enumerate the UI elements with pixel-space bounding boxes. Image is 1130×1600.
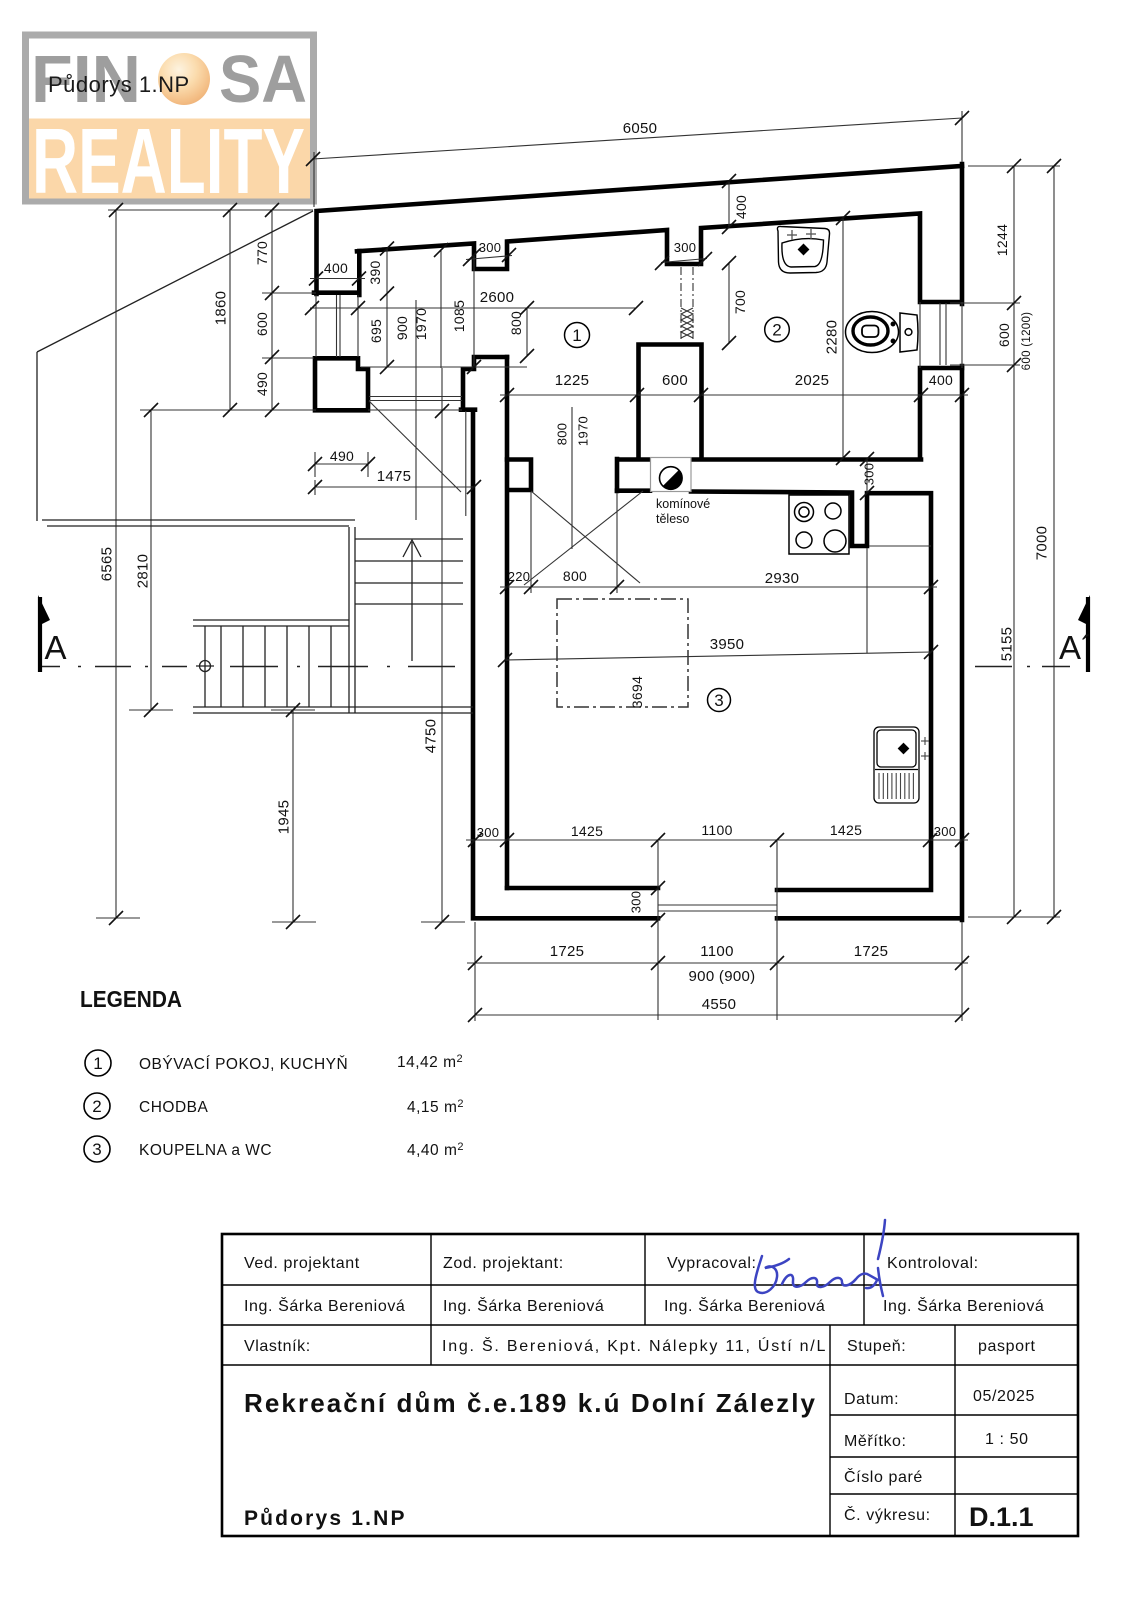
- svg-text:2: 2: [92, 1097, 101, 1116]
- interior room1 dims: [386, 248, 388, 367]
- svg-text:6565: 6565: [98, 547, 115, 582]
- svg-text:600: 600: [662, 372, 688, 389]
- right outer wall lower: [960, 366, 965, 920]
- right outer wall upper: [960, 164, 965, 304]
- pier between room1 and room2: [639, 345, 702, 460]
- svg-text:4550: 4550: [702, 996, 737, 1013]
- svg-text:2930: 2930: [765, 570, 800, 587]
- svg-text:pasport: pasport: [978, 1338, 1036, 1355]
- left columns: [108, 209, 313, 211]
- svg-text:6050: 6050: [623, 120, 658, 137]
- svg-text:Č. výkresu:: Č. výkresu:: [844, 1505, 931, 1524]
- section marks: [38, 595, 1092, 672]
- svg-text:Rekreační dům č.e.189 k.ú: Rekreační dům č.e.189 k.ú Dolní Zálezly: [244, 1388, 816, 1418]
- svg-text:05/2025: 05/2025: [973, 1388, 1035, 1405]
- svg-text:1225: 1225: [555, 372, 590, 389]
- svg-text:2600: 2600: [480, 289, 515, 306]
- toilet: [846, 312, 919, 353]
- svg-text:LEGENDA: LEGENDA: [80, 986, 182, 1012]
- svg-text:7000: 7000: [1033, 526, 1050, 561]
- svg-text:1: 1: [93, 1054, 102, 1073]
- svg-text:Ing. Šárka Bereniová: Ing. Šárka Bereniová: [244, 1296, 405, 1315]
- room3 top dims: [500, 586, 937, 588]
- svg-text:1945: 1945: [275, 800, 292, 835]
- svg-text:800: 800: [508, 311, 524, 335]
- svg-text:1970: 1970: [413, 308, 429, 340]
- FINOSA REALITY logo: [22, 32, 317, 214]
- svg-text:REALITY: REALITY: [32, 109, 305, 213]
- pier 220: [507, 460, 531, 491]
- svg-text:1100: 1100: [700, 943, 733, 960]
- svg-text:5155: 5155: [998, 627, 1015, 662]
- stove: [789, 495, 849, 554]
- room2 bottom wall top face + west jamb: [617, 459, 921, 491]
- window glazing right: [939, 303, 941, 365]
- entrance door: [369, 396, 462, 398]
- svg-text:komínové: komínové: [656, 497, 710, 511]
- svg-text:1725: 1725: [854, 943, 889, 960]
- svg-text:300: 300: [629, 891, 644, 914]
- svg-text:těleso: těleso: [656, 512, 689, 526]
- svg-text:220: 220: [508, 569, 531, 584]
- inner top wall with notches, right inner wall, window caps: [357, 214, 961, 303]
- svg-text:1425: 1425: [571, 823, 603, 839]
- svg-text:490: 490: [330, 448, 354, 464]
- svg-text:2810: 2810: [134, 554, 151, 589]
- svg-text:Datum:: Datum:: [844, 1391, 899, 1408]
- svg-text:400: 400: [733, 195, 749, 219]
- outer top wall + left wall: [317, 166, 963, 294]
- svg-text:300: 300: [477, 825, 500, 840]
- bottom dims: [466, 839, 968, 841]
- svg-text:Kontroloval:: Kontroloval:: [887, 1255, 979, 1272]
- svg-text:1100: 1100: [701, 822, 732, 838]
- svg-text:CHODBA: CHODBA: [139, 1099, 208, 1116]
- svg-text:Ved. projektant: Ved. projektant: [244, 1255, 360, 1272]
- svg-text:14,42 m2: 14,42 m2: [397, 1053, 463, 1071]
- svg-text:4,40 m2: 4,40 m2: [407, 1141, 464, 1159]
- svg-text:900 (900): 900 (900): [689, 968, 756, 985]
- svg-text:1085: 1085: [451, 300, 467, 332]
- svg-text:300: 300: [862, 463, 877, 486]
- section line A-A: [39, 666, 1070, 668]
- svg-text:KOUPELNA a WC: KOUPELNA a WC: [139, 1142, 272, 1159]
- svg-text:1425: 1425: [830, 822, 862, 838]
- svg-text:Číslo paré: Číslo paré: [844, 1467, 923, 1486]
- right wall window bottom cap + inner face: [920, 368, 962, 459]
- svg-text:770: 770: [254, 241, 270, 265]
- svg-text:1: 1: [572, 326, 581, 345]
- svg-text:400: 400: [324, 260, 348, 276]
- bottom face right + niche + room3 right wall + bottom: [691, 492, 931, 891]
- shower dashed square: [557, 599, 688, 707]
- svg-text:600: 600: [254, 312, 270, 336]
- left wall stub cap: [314, 290, 358, 295]
- room number circles: [565, 317, 790, 711]
- svg-text:800: 800: [555, 423, 570, 446]
- lower block outer left + bottom: [473, 410, 960, 918]
- svg-text:A´: A´: [1059, 629, 1092, 666]
- svg-text:2280: 2280: [823, 320, 840, 355]
- svg-text:Půdorys 1.NP: Půdorys 1.NP: [48, 72, 190, 97]
- svg-text:Stupeň:: Stupeň:: [847, 1338, 906, 1355]
- signature (blue pen): [755, 1220, 885, 1296]
- svg-text:Vlastník:: Vlastník:: [244, 1338, 311, 1355]
- svg-text:800: 800: [563, 568, 587, 584]
- svg-text:1244: 1244: [994, 224, 1010, 256]
- svg-text:2025: 2025: [795, 372, 830, 389]
- svg-text:490: 490: [254, 372, 270, 396]
- svg-text:600 (1200): 600 (1200): [1021, 312, 1033, 371]
- svg-text:3: 3: [92, 1140, 101, 1159]
- inner left face: [357, 251, 362, 295]
- svg-text:3950: 3950: [710, 636, 745, 653]
- svg-text:3694: 3694: [629, 676, 645, 708]
- svg-text:Ing. Šárka Bereniová: Ing. Šárka Bereniová: [883, 1296, 1044, 1315]
- svg-text:300: 300: [934, 824, 957, 839]
- svg-text:Vypracoval:: Vypracoval:: [667, 1255, 757, 1272]
- room1/3 wall bottom face left piece: [617, 488, 650, 493]
- svg-text:1860: 1860: [212, 291, 229, 326]
- svg-text:900: 900: [394, 316, 410, 340]
- svg-text:400: 400: [929, 372, 953, 388]
- svg-text:A: A: [45, 629, 67, 666]
- right columns: [968, 165, 1060, 167]
- room3 bottom face left: [507, 886, 658, 891]
- kitchen sink room3: [874, 727, 929, 803]
- svg-text:390: 390: [367, 260, 383, 284]
- long interior wall x507: [505, 357, 510, 888]
- svg-text:4750: 4750: [422, 719, 439, 754]
- svg-text:Ing. Šárka Bereniová: Ing. Šárka Bereniová: [664, 1296, 825, 1315]
- svg-text:600: 600: [996, 323, 1012, 347]
- svg-text:300: 300: [674, 240, 697, 255]
- svg-text:Zod. projektant:: Zod. projektant:: [443, 1255, 564, 1272]
- 400 left wall dim: [310, 278, 365, 280]
- svg-text:1970: 1970: [576, 416, 591, 446]
- svg-text:1 : 50: 1 : 50: [985, 1431, 1029, 1448]
- svg-text:Ing. Šárka Bereniová: Ing. Šárka Bereniová: [443, 1296, 604, 1315]
- svg-text:300: 300: [479, 240, 502, 255]
- washbasin room2: [777, 226, 829, 273]
- corridor door room1-room3: [571, 407, 573, 549]
- svg-text:Měřítko:: Měřítko:: [844, 1433, 907, 1450]
- 6050 dim line: [313, 118, 962, 159]
- svg-text:695: 695: [368, 319, 384, 343]
- svg-text:700: 700: [732, 290, 748, 314]
- svg-text:2: 2: [772, 321, 781, 340]
- svg-text:1475: 1475: [377, 468, 412, 485]
- svg-text:3: 3: [714, 691, 723, 710]
- window glazing left: [336, 295, 338, 357]
- annex box: [315, 358, 368, 410]
- svg-text:Půdorys 1.NP: Půdorys 1.NP: [244, 1507, 405, 1530]
- svg-text:4,15 m2: 4,15 m2: [407, 1098, 464, 1116]
- chimney: [651, 458, 692, 492]
- svg-text:D.1.1: D.1.1: [969, 1502, 1034, 1532]
- flue dashed + zigzag: [681, 267, 693, 341]
- svg-text:1725: 1725: [550, 943, 585, 960]
- wall hook west of room1: [461, 357, 507, 410]
- svg-text:OBÝVACÍ POKOJ, KUCHYŇ: OBÝVACÍ POKOJ, KUCHYŇ: [139, 1056, 348, 1073]
- svg-text:SA: SA: [219, 42, 307, 117]
